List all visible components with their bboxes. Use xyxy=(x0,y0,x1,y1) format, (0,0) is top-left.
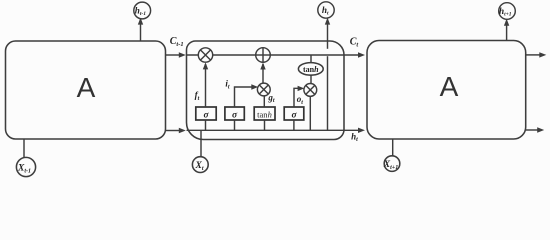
arrow C_{t+1} out right xyxy=(526,52,547,57)
gate box sigma o xyxy=(284,107,304,130)
svg-text:σ: σ xyxy=(291,111,297,121)
gate box sigma i xyxy=(225,107,244,130)
i riser and arrow into g multiply xyxy=(235,84,259,107)
o riser and arrow into output multiply xyxy=(294,86,304,107)
svg-text:A: A xyxy=(77,72,96,103)
arrow h out bottom right xyxy=(526,127,545,132)
LSTM cell box xyxy=(187,41,345,140)
arrow h_{t-1} into cell bottom xyxy=(166,128,186,133)
output circle h_{t+1} xyxy=(499,3,516,20)
cell A left (RNN block t-1) xyxy=(6,41,166,139)
f riser arrow into forget gate multiply xyxy=(203,62,208,107)
wire output multiply down to h line xyxy=(309,96,311,130)
wire to h_{t+1} xyxy=(504,19,509,41)
h-up branch to h_t circle xyxy=(325,18,330,131)
wire to X_{t-1} xyxy=(23,139,25,158)
gate box sigma f xyxy=(196,107,216,130)
svg-text:σ: σ xyxy=(232,111,238,121)
arrow g multiply to add node xyxy=(260,63,265,84)
internal bottom h line exiting as h_t xyxy=(187,128,366,133)
cell A right (RNN block t+1) xyxy=(367,41,526,140)
svg-text:A: A xyxy=(440,71,459,102)
wire tanh ellipse to output multiply xyxy=(310,75,312,83)
output circle h_t xyxy=(318,2,334,18)
input circle X_{t-1} xyxy=(16,157,35,176)
wire to h_{t-1} xyxy=(138,18,143,41)
input circle X_{t+1} xyxy=(383,156,400,172)
svg-text:tanh: tanh xyxy=(303,65,319,74)
arrow C_{t-1} into cell xyxy=(166,52,186,57)
input circle X_t xyxy=(192,157,208,173)
tanh branch from C line xyxy=(310,55,312,63)
output circle h_{t-1} xyxy=(134,2,151,19)
multiply node output xyxy=(304,84,317,97)
wire to X_{t+1} xyxy=(392,139,394,156)
C line through cell to C_t arrow xyxy=(187,52,366,57)
add node xyxy=(256,48,271,63)
gate box tanh xyxy=(254,107,275,130)
wire X_t into cell xyxy=(200,130,202,157)
svg-text:tanh: tanh xyxy=(257,109,272,119)
tanh ellipse xyxy=(298,63,323,76)
multiply node forget xyxy=(198,48,212,62)
g riser xyxy=(263,96,265,107)
svg-text:σ: σ xyxy=(203,111,209,121)
multiply node g xyxy=(257,83,270,96)
